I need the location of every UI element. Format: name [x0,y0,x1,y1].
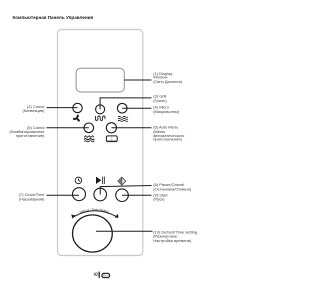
svg-text:приготовление): приготовление) [16,133,45,138]
svg-text:Настройка времени): Настройка времени) [153,238,192,243]
svg-text:(Остановка/Отмена): (Остановка/Отмена) [153,186,192,191]
svg-text:(Конвекция): (Конвекция) [22,108,45,113]
svg-text:(Окно Дисплея): (Окно Дисплея) [153,79,183,84]
svg-text:(Гриль): (Гриль) [153,98,167,103]
svg-text:приготовления): приготовления) [153,137,182,142]
svg-text:(Пуск): (Пуск) [153,197,165,202]
svg-text:(Часы/Время): (Часы/Время) [19,196,45,201]
svg-text:(Микроволны): (Микроволны) [153,109,180,114]
svg-text:Компьютерная Панель Управления: Компьютерная Панель Управления [13,15,94,20]
